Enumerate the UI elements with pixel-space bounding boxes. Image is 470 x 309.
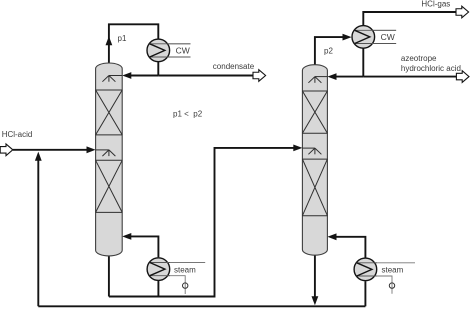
column C1 packing section 1: [96, 90, 123, 135]
column C2 packing section 1: [302, 91, 327, 133]
arrowhead feed into C2: [293, 145, 302, 152]
wire: C1 bottoms outlet: [108, 255, 110, 296]
condenser E1: [147, 39, 170, 62]
wire: reboiler E4 down leg: [364, 281, 366, 306]
wire: azeotrope product line: [363, 76, 456, 78]
wire: condenser E1 outlet down to reflux junction: [157, 62, 159, 76]
wire: HCl-gas line from condenser E3 top: [363, 12, 456, 25]
stream arrow: condensate outlet: [253, 70, 266, 82]
wire: C1 bottoms transfer line to C2 feed: [109, 148, 294, 297]
reboiler E4: [354, 258, 377, 281]
wire: C1 overhead vapor line (p1 riser to condenser): [109, 24, 158, 63]
column C1 top distributor: [102, 76, 122, 82]
flow arrow up on p1 riser: [106, 36, 113, 45]
arrowhead feed into C1: [87, 146, 96, 153]
reboiler E2: [147, 258, 170, 281]
column C2 feed distributor: [302, 148, 321, 154]
wire: reboiler E2 down leg: [157, 281, 159, 297]
steam trap of reboiler E4: [389, 283, 394, 288]
svg-text:p1 < p2: p1 < p2: [173, 110, 203, 119]
wire: HCl-acid feed line into C1: [13, 149, 87, 151]
svg-text:HCl-gas: HCl-gas: [421, 0, 450, 9]
wire: recycle riser from bottom loop to C1 feed: [37, 158, 39, 306]
wire: reboiler E4 return line into C2: [335, 237, 365, 258]
column C2 packing section 2: [302, 159, 327, 216]
column C2 top distributor: [308, 77, 327, 83]
steam supply line of reboiler E2: [150, 262, 205, 264]
flow arrow up on recycle riser: [35, 152, 42, 161]
wire: condensate product line: [158, 75, 253, 77]
wire: reflux line into column C1: [130, 75, 158, 77]
arrowhead reflux into C1: [122, 72, 131, 79]
wire: condenser E3 liquid outlet down: [362, 48, 364, 76]
svg-text:CW: CW: [176, 45, 190, 55]
wire: C2 bottoms outlet: [314, 255, 316, 297]
arrowhead reflux into C2: [327, 73, 336, 80]
svg-text:condensate: condensate: [213, 62, 255, 71]
condenser E1 heat exchange chevron: [150, 44, 191, 57]
wire: bottoms recycle line back to C1 feed: [38, 305, 365, 307]
steam trap of reboiler E2: [183, 283, 188, 288]
column C1 feed distributor: [96, 150, 116, 156]
arrowhead vapor into condenser E3: [343, 34, 352, 41]
arrowhead reboiler return into C1: [122, 233, 131, 240]
column C1 packing section 2: [96, 160, 123, 212]
steam supply line of reboiler E4: [357, 262, 415, 264]
steam condensate line of reboiler E4: [357, 276, 392, 294]
stream arrow: HCl-acid feed inlet: [0, 144, 13, 156]
flow arrow down on C2 bottoms: [312, 296, 319, 305]
svg-text:steam: steam: [174, 266, 196, 275]
cooling water lines of condenser E1: [150, 44, 191, 57]
svg-text:CW: CW: [381, 32, 395, 42]
svg-text:steam: steam: [382, 266, 404, 275]
wire: reboiler E2 return line into C1: [130, 236, 158, 257]
svg-text:HCl-acid: HCl-acid: [2, 130, 33, 139]
svg-text:hydrochloric acid: hydrochloric acid: [401, 64, 461, 73]
reboiler E4 heat exchange chevron: [357, 263, 377, 276]
column C2 shell: [302, 65, 327, 256]
reboiler E2 heat exchange chevron: [150, 263, 170, 276]
condenser E3: [352, 26, 375, 49]
svg-text:p2: p2: [324, 47, 333, 56]
steam condensate line of reboiler E2: [150, 276, 185, 294]
arrowhead reboiler return into C2: [327, 233, 336, 240]
condenser E3 heat exchange chevron: [355, 30, 396, 43]
wire: reflux line into column C2: [335, 76, 363, 78]
column C1 shell: [96, 63, 123, 256]
cooling water lines of condenser E3: [355, 30, 396, 43]
wire: C2 overhead vapor line (p2) to condenser E3: [315, 37, 343, 65]
svg-text:p1: p1: [118, 34, 127, 43]
svg-text:azeotrope: azeotrope: [401, 54, 437, 63]
stream arrow: azeotrope outlet: [456, 71, 469, 83]
stream arrow: HCl-gas outlet: [456, 6, 469, 18]
